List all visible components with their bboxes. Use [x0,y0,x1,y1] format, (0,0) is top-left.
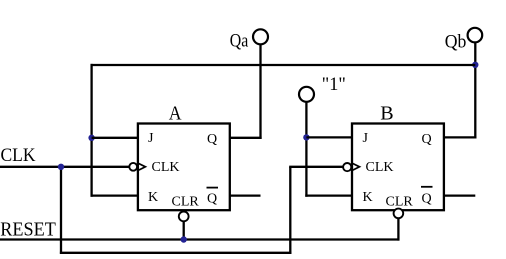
flip-flop A clear bubble [179,212,189,222]
flip-flop B clear bubble [394,209,404,219]
flip-flop B clock bubble [343,163,351,171]
wire CLK rise to B [289,167,291,254]
svg-text:Q: Q [207,132,217,147]
svg-text:CLK: CLK [366,160,394,175]
svg-text:CLK: CLK [152,160,180,175]
wire feedback left vertical [90,64,92,197]
svg-text:RESET: RESET [0,219,56,241]
wire CLK into B bubble [289,166,343,168]
svg-text:CLK: CLK [1,145,36,166]
wire RESET stub to A clear bubble [183,222,185,240]
svg-text:CLR: CLR [172,195,200,210]
flip-flop A box [138,124,230,211]
wire A Q output [230,137,262,139]
svg-text:J: J [363,131,369,146]
wire B Q output [444,136,477,138]
svg-text:"1": "1" [322,74,346,95]
terminal circle logic one [299,87,314,102]
wire Qa vertical [259,45,261,139]
wire CLK input to A bubble [0,166,129,168]
junction dot RESET at A [181,236,187,242]
svg-text:B: B [380,102,393,124]
junction dot CLK branch [58,164,64,170]
wire B Qbar stub [444,194,475,196]
flip-flop B box [352,124,444,211]
svg-text:K: K [148,190,158,205]
svg-text:CLR: CLR [386,195,414,210]
wire B K input [305,194,352,196]
wire CLK bottom horizontal [60,252,292,254]
svg-text:Qa: Qa [230,30,249,51]
svg-text:J: J [148,131,154,146]
terminal circle Qb [468,28,483,43]
svg-text:Q: Q [422,132,432,147]
wire logic one vertical [305,102,307,197]
wire A J input [92,137,138,139]
wire A K input [91,194,138,196]
flip-flop A clock triangle [139,164,146,171]
flip-flop A clock bubble [129,163,137,171]
svg-text:Q: Q [207,192,217,207]
svg-text:Qb: Qb [445,31,467,52]
junction dot A J branch [88,135,94,141]
wire A Qbar stub [230,194,261,196]
wire RESET horizontal [0,238,400,240]
wire RESET rise to B clear bubble [397,219,399,241]
svg-text:Q: Q [422,192,432,207]
flip-flop B clock triangle [353,164,360,171]
terminal circle Qa [253,29,268,44]
svg-text:K: K [363,190,373,205]
junction dot Qb feedback [472,62,478,68]
junction dot B J branch [303,134,309,140]
svg-text:A: A [169,102,182,124]
wire CLK vertical branch down [60,167,62,254]
wire Qb vertical [474,43,476,139]
wire feedback top horizontal [91,64,476,66]
wire B J input [306,136,352,138]
